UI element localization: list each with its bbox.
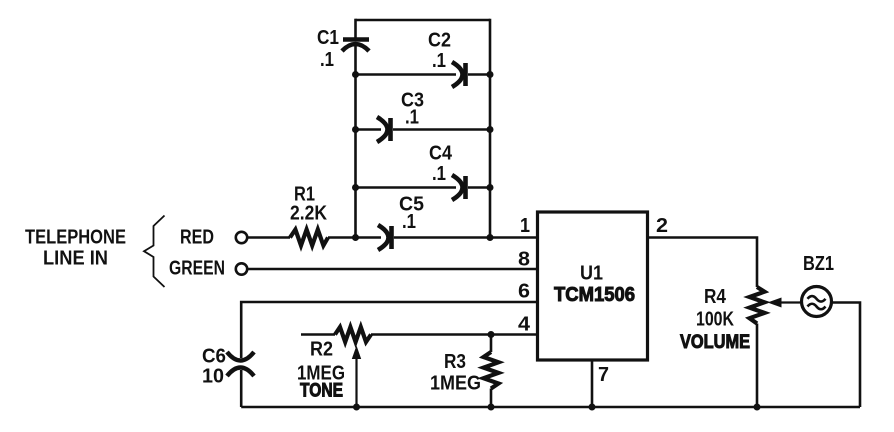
svg-text:LINE IN: LINE IN (43, 248, 108, 270)
svg-text:.1: .1 (405, 107, 419, 129)
ladder top wire (356, 19, 491, 22)
svg-text:10: 10 (202, 366, 224, 388)
svg-text:TELEPHONE: TELEPHONE (25, 227, 126, 249)
wire U1 pin4 line (301, 333, 538, 336)
svg-text:1MEG: 1MEG (430, 373, 481, 395)
wire RED line (247, 236, 290, 239)
buzzer BZ1 (802, 287, 832, 317)
ladder left rail upper (354, 19, 357, 38)
wire U1 pin6 to C6 branch (241, 302, 537, 358)
svg-text:RED: RED (180, 227, 214, 249)
svg-text:C6: C6 (202, 346, 226, 368)
capacitor C5 (378, 225, 392, 250)
capacitor C3 (377, 117, 391, 142)
svg-text:R3: R3 (444, 351, 466, 373)
svg-text:8: 8 (518, 249, 530, 271)
label TELEPHONE LINE IN (25, 227, 126, 270)
svg-text:U1: U1 (580, 263, 603, 285)
resistor R4 (750, 287, 765, 324)
junction dots bottom (353, 331, 761, 411)
wire RED line to C5 (328, 236, 381, 239)
svg-text:100K: 100K (696, 309, 734, 331)
terminal GREEN (236, 263, 247, 274)
rung C4 wire (356, 186, 491, 189)
resistor R3 (484, 335, 499, 408)
svg-text:.1: .1 (432, 50, 446, 72)
resistor R2 (335, 327, 371, 342)
svg-text:R4: R4 (704, 286, 727, 308)
svg-text:2: 2 (656, 215, 668, 237)
svg-text:C1: C1 (317, 27, 339, 49)
wire C5 to U1 pin1 (394, 236, 538, 239)
brace (144, 216, 165, 288)
svg-text:.1: .1 (320, 49, 334, 71)
capacitor C6 (227, 352, 254, 376)
capacitor C2 (452, 62, 466, 87)
svg-text:2.2K: 2.2K (290, 203, 327, 225)
ladder right rail (489, 19, 492, 238)
capacitor C1 (342, 40, 369, 52)
svg-text:TONE: TONE (300, 381, 343, 402)
wire U1 pin7 to bottom rail (591, 360, 594, 407)
wire GREEN line to U1 pin8 (247, 268, 537, 271)
wire R4 to bottom rail (756, 324, 759, 408)
svg-text:VOLUME: VOLUME (680, 332, 750, 353)
svg-text:7: 7 (598, 364, 609, 386)
ladder left rail lower (354, 46, 357, 238)
svg-text:C4: C4 (429, 143, 453, 165)
wire C6 to bottom rail (240, 370, 243, 407)
rung C2 wire (356, 73, 491, 76)
resistor R1 (290, 230, 328, 246)
svg-text:C2: C2 (428, 30, 451, 52)
terminal RED (236, 232, 247, 243)
wire BZ1 to bottom rail (832, 303, 860, 408)
IC U1 box (538, 212, 648, 360)
R2 wiper arrow (352, 346, 361, 407)
junction dots ladder (352, 71, 494, 241)
capacitor C4 (452, 175, 466, 200)
R4 wiper arrow from BZ1 (768, 298, 802, 308)
svg-text:1: 1 (520, 215, 530, 237)
svg-text:R2: R2 (310, 339, 333, 361)
bottom rail wire (241, 406, 860, 409)
svg-text:6: 6 (518, 281, 530, 303)
svg-text:.1: .1 (402, 211, 416, 233)
wire U1 pin2 to R4 (648, 238, 758, 288)
svg-text:GREEN: GREEN (169, 258, 225, 280)
svg-text:.1: .1 (432, 163, 446, 185)
svg-text:TCM1506: TCM1506 (554, 284, 635, 306)
svg-text:4: 4 (518, 314, 531, 336)
rung C3 wire (356, 128, 491, 131)
svg-text:BZ1: BZ1 (803, 253, 834, 275)
